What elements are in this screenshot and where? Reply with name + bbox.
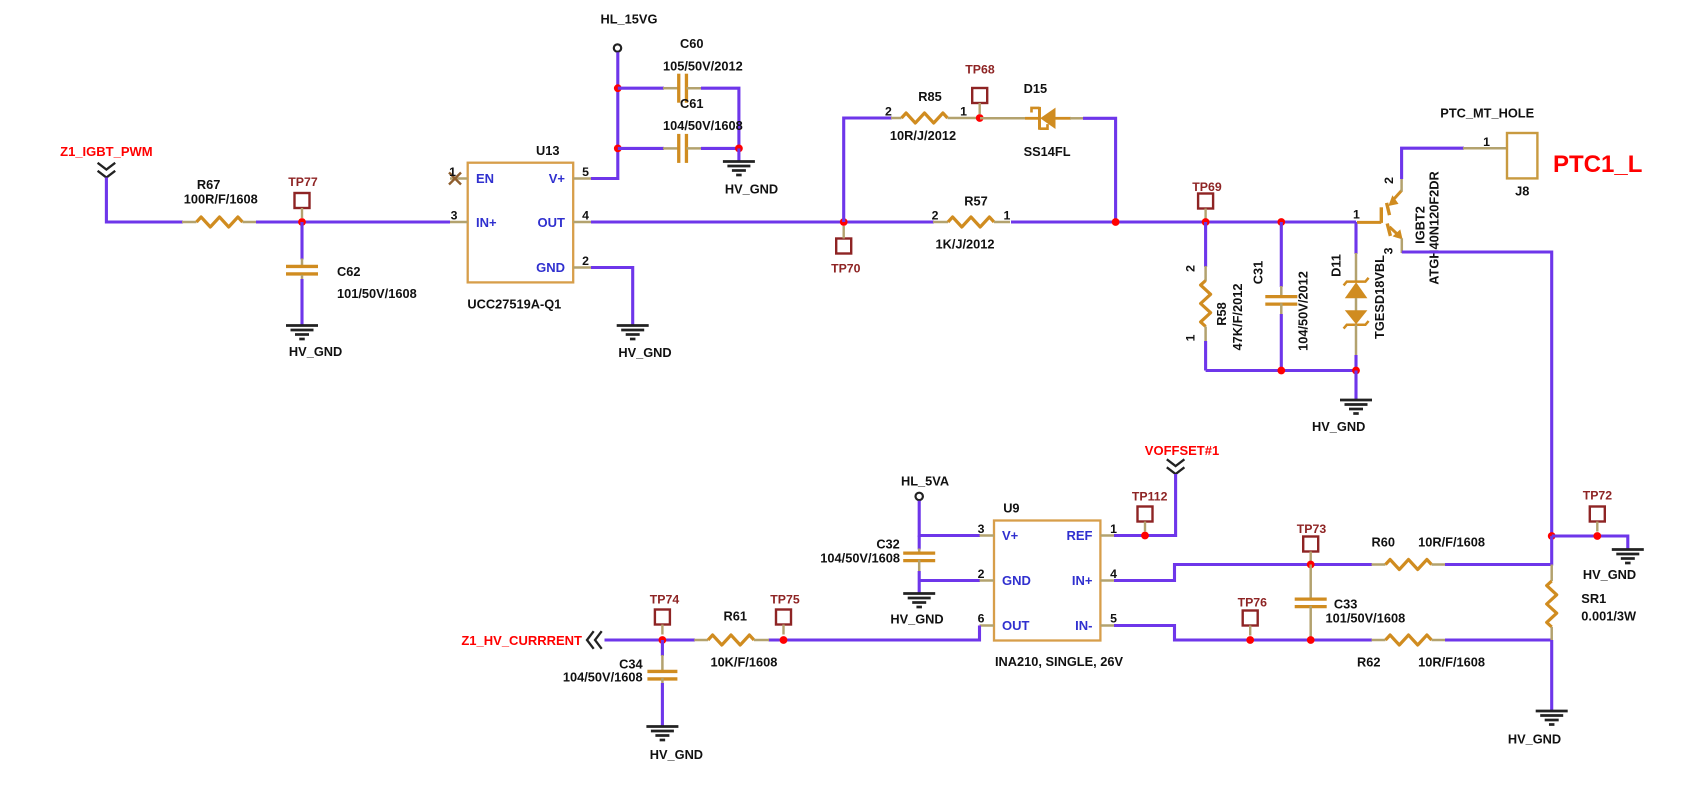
testpoint TP69 <box>1192 180 1222 219</box>
svg-text:104/50V/1608: 104/50V/1608 <box>663 118 743 133</box>
node shunt top junction <box>1548 532 1556 540</box>
svg-text:C61: C61 <box>680 96 703 111</box>
node C31 top junction <box>1277 218 1285 226</box>
svg-text:R67: R67 <box>197 177 220 192</box>
svg-text:HV_GND: HV_GND <box>618 345 671 360</box>
wire IN+ rail <box>1114 565 1372 581</box>
pin 3 V+ <box>978 522 1019 543</box>
svg-text:6: 6 <box>978 612 985 626</box>
svg-text:TP68: TP68 <box>965 63 995 77</box>
diode D15 SS14FL <box>980 81 1084 159</box>
capacitor C32 <box>820 536 980 595</box>
svg-text:2: 2 <box>978 567 985 581</box>
svg-text:HV_GND: HV_GND <box>1583 567 1636 582</box>
svg-text:3: 3 <box>451 209 458 223</box>
wire R62 to shunt bottom <box>1445 638 1552 641</box>
svg-text:104/50V/2012: 104/50V/2012 <box>1296 271 1311 351</box>
resistor SR1 shunt <box>1547 536 1637 641</box>
svg-text:TP74: TP74 <box>650 593 680 607</box>
svg-text:C60: C60 <box>680 36 703 51</box>
ground HV_GND under SR1 <box>1536 711 1568 725</box>
node C31 bottom junction <box>1277 367 1285 375</box>
svg-text:VOFFSET#1: VOFFSET#1 <box>1145 443 1219 458</box>
ground HV_GND under C62 <box>286 326 342 360</box>
resistor R85 <box>885 89 980 143</box>
capacitor C34 <box>563 640 678 727</box>
node D11 bottom junction <box>1352 367 1360 375</box>
svg-text:EN: EN <box>476 171 494 186</box>
svg-text:3: 3 <box>978 522 985 536</box>
svg-text:UCC27519A-Q1: UCC27519A-Q1 <box>467 297 561 312</box>
svg-text:0.001/3W: 0.001/3W <box>1581 609 1637 624</box>
svg-text:R61: R61 <box>724 609 747 624</box>
svg-text:4: 4 <box>582 209 589 223</box>
svg-text:1: 1 <box>960 105 967 119</box>
testpoint TP77 <box>288 175 318 218</box>
pin 1 EN no-connect <box>449 165 494 186</box>
svg-text:GND: GND <box>1002 573 1031 588</box>
svg-text:HV_GND: HV_GND <box>1508 732 1561 747</box>
svg-text:R85: R85 <box>918 89 941 104</box>
svg-text:HV_GND: HV_GND <box>1312 419 1365 434</box>
svg-text:HL_5VA: HL_5VA <box>901 474 949 489</box>
pin 5 V+ <box>549 165 591 186</box>
wire R60 to shunt top <box>1445 563 1552 566</box>
ground HV_GND under D11 <box>1312 371 1372 435</box>
ground HV_GND under C34 <box>646 727 703 763</box>
resistor R62 <box>1357 635 1485 670</box>
resistor R58 <box>1184 222 1245 371</box>
svg-text:TGESD18VBL: TGESD18VBL <box>1372 255 1387 339</box>
capacitor C33 <box>1295 565 1406 641</box>
svg-text:3: 3 <box>1381 247 1395 254</box>
svg-text:R58: R58 <box>1214 302 1229 325</box>
node TP73 junction <box>1307 561 1315 569</box>
ground HV_GND under C61 <box>723 148 778 196</box>
capacitor C62 <box>286 222 417 326</box>
svg-text:J8: J8 <box>1515 184 1529 199</box>
svg-text:1: 1 <box>1184 334 1198 341</box>
svg-text:TP112: TP112 <box>1132 490 1168 504</box>
svg-text:1: 1 <box>1353 208 1360 222</box>
svg-text:1: 1 <box>1483 135 1490 149</box>
node TP75 junction <box>780 636 788 644</box>
node TP76 junction <box>1246 636 1254 644</box>
wire R67 to U13 IN+ <box>256 220 450 223</box>
net label Z1_HV_CURRRENT <box>461 631 601 649</box>
svg-text:IN-: IN- <box>1075 618 1092 633</box>
svg-text:U13: U13 <box>536 143 559 158</box>
node D15 return junction <box>1112 218 1120 226</box>
svg-text:2: 2 <box>932 209 939 223</box>
svg-text:104/50V/1608: 104/50V/1608 <box>820 551 900 566</box>
svg-text:R57: R57 <box>964 194 987 209</box>
node C61 right junction <box>735 145 743 153</box>
power port HL_5VA <box>901 474 949 501</box>
svg-text:10K/F/1608: 10K/F/1608 <box>710 655 777 670</box>
svg-text:OUT: OUT <box>538 215 566 230</box>
svg-text:1: 1 <box>449 165 456 179</box>
wire U13 V+ to HL_15VG <box>591 52 618 178</box>
svg-text:HV_GND: HV_GND <box>890 612 943 627</box>
ground HV_GND at TP72 <box>1583 550 1644 583</box>
node TP68 junction <box>976 114 984 122</box>
node TP72 junction <box>1593 532 1601 540</box>
capacitor C60 <box>618 36 743 148</box>
pin 3 IN+ <box>450 209 497 231</box>
node TP112 junction <box>1141 532 1149 540</box>
svg-text:Z1_IGBT_PWM: Z1_IGBT_PWM <box>60 144 152 159</box>
resistor R57 <box>932 194 1011 252</box>
node C61 left junction <box>614 145 622 153</box>
connector J8 PTC_MT_HOLE <box>1440 106 1537 199</box>
testpoint TP73 <box>1297 522 1327 562</box>
pin 4 IN+ <box>1072 567 1117 588</box>
node TP74 junction <box>659 636 667 644</box>
testpoint TP74 <box>650 593 680 635</box>
wire TP72 rail <box>1552 536 1628 550</box>
node C33 bottom junction <box>1307 636 1315 644</box>
wire R58 C31 D11 bottom rail <box>1206 369 1356 372</box>
svg-text:V+: V+ <box>549 171 566 186</box>
svg-text:GND: GND <box>536 260 565 275</box>
testpoint TP112 <box>1132 490 1168 532</box>
net label VOFFSET#1 <box>1145 443 1219 474</box>
svg-text:TP77: TP77 <box>288 175 318 189</box>
svg-text:SS14FL: SS14FL <box>1024 144 1071 159</box>
svg-text:TP72: TP72 <box>1583 489 1613 503</box>
svg-text:SR1: SR1 <box>1581 591 1606 606</box>
op-amp U13 gate driver <box>467 143 573 312</box>
testpoint TP76 <box>1238 596 1268 636</box>
testpoint TP70 <box>831 226 861 276</box>
net label PTC1_L <box>1553 151 1642 178</box>
svg-text:C33: C33 <box>1334 597 1357 612</box>
pin 6 OUT <box>978 612 1030 634</box>
wire R57 to IGBT gate rail <box>1011 220 1356 223</box>
node TP77 junction <box>298 218 306 226</box>
wire IGBT emitter to shunt <box>1402 252 1552 536</box>
node C60 junction <box>614 84 622 92</box>
ground HV_GND under U13 <box>617 326 672 361</box>
svg-text:V+: V+ <box>1002 528 1019 543</box>
wire SR1 to ground <box>1550 640 1553 712</box>
svg-text:C31: C31 <box>1251 261 1266 284</box>
wire U9 OUT rail <box>605 626 980 641</box>
svg-text:5: 5 <box>1110 612 1117 626</box>
svg-text:101/50V/1608: 101/50V/1608 <box>1326 611 1406 626</box>
svg-text:10R/F/1608: 10R/F/1608 <box>1418 535 1485 550</box>
testpoint TP72 <box>1583 489 1613 532</box>
svg-text:1: 1 <box>1003 209 1010 223</box>
svg-text:HV_GND: HV_GND <box>725 182 778 197</box>
svg-text:D11: D11 <box>1329 254 1344 277</box>
wire Z1_IGBT_PWM to R67 <box>106 178 183 223</box>
svg-text:4: 4 <box>1110 567 1117 581</box>
svg-text:100R/F/1608: 100R/F/1608 <box>184 192 258 207</box>
svg-text:Z1_HV_CURRRENT: Z1_HV_CURRRENT <box>461 633 582 648</box>
svg-text:HV_GND: HV_GND <box>650 747 703 762</box>
pin 4 OUT <box>538 209 591 231</box>
resistor R61 <box>694 609 777 670</box>
svg-text:R62: R62 <box>1357 655 1380 670</box>
svg-text:D15: D15 <box>1024 81 1047 96</box>
power port HL_15VG <box>601 12 658 52</box>
wire R85 branch up <box>844 118 892 222</box>
svg-text:105/50V/2012: 105/50V/2012 <box>663 59 743 74</box>
svg-text:5: 5 <box>582 165 589 179</box>
svg-text:HL_15VG: HL_15VG <box>601 12 658 27</box>
svg-text:TP75: TP75 <box>770 593 800 607</box>
wire REF to VOFFSET#1 <box>1114 474 1176 536</box>
svg-text:TP73: TP73 <box>1297 522 1327 536</box>
testpoint TP75 <box>770 593 800 635</box>
svg-text:1K/J/2012: 1K/J/2012 <box>935 237 994 252</box>
svg-text:IGBT2: IGBT2 <box>1413 206 1428 244</box>
svg-text:C32: C32 <box>876 537 899 552</box>
svg-text:U9: U9 <box>1003 501 1019 516</box>
svg-text:2: 2 <box>1382 177 1396 184</box>
pin 2 GND <box>978 567 1031 588</box>
svg-text:ATGH40N120F2DR: ATGH40N120F2DR <box>1427 171 1442 285</box>
svg-text:101/50V/1608: 101/50V/1608 <box>337 286 417 301</box>
svg-text:47K/F/2012: 47K/F/2012 <box>1230 284 1245 351</box>
svg-text:1: 1 <box>1110 522 1117 536</box>
ground HV_GND under C32 <box>890 594 943 627</box>
testpoint TP68 <box>965 63 995 115</box>
svg-text:IN+: IN+ <box>476 215 497 230</box>
svg-text:REF: REF <box>1067 528 1093 543</box>
svg-text:TP70: TP70 <box>831 262 861 276</box>
svg-text:IN+: IN+ <box>1072 573 1093 588</box>
svg-text:TP69: TP69 <box>1192 180 1222 194</box>
node R85 branch junction <box>840 218 848 226</box>
svg-text:10R/F/1608: 10R/F/1608 <box>1418 655 1485 670</box>
svg-text:HV_GND: HV_GND <box>289 344 342 359</box>
svg-text:OUT: OUT <box>1002 618 1030 633</box>
wire HL_5VA to U9 V+ <box>919 501 980 536</box>
wire IGBT collector to J8 <box>1402 148 1507 179</box>
capacitor C31 <box>1251 222 1311 371</box>
wire IN- rail <box>1114 626 1372 641</box>
pin 2 GND <box>536 254 591 275</box>
svg-text:2: 2 <box>885 105 892 119</box>
svg-text:INA210, SINGLE, 26V: INA210, SINGLE, 26V <box>995 654 1123 669</box>
net label Z1_IGBT_PWM <box>60 144 152 178</box>
svg-text:TP76: TP76 <box>1238 596 1268 610</box>
pin 1 REF <box>1067 522 1118 543</box>
svg-text:10R/J/2012: 10R/J/2012 <box>890 128 956 143</box>
transistor IGBT2 ATGH40N120F2DR <box>1353 171 1442 285</box>
node TP69 junction <box>1202 218 1210 226</box>
svg-text:2: 2 <box>582 254 589 268</box>
op-amp U9 current sense <box>994 501 1123 670</box>
svg-text:PTC1_L: PTC1_L <box>1553 151 1642 178</box>
capacitor C61 <box>618 96 743 163</box>
wire D15 to main rail <box>1083 118 1116 222</box>
svg-text:C62: C62 <box>337 264 360 279</box>
svg-text:R60: R60 <box>1372 535 1395 550</box>
diode D11 TVS TGESD18VBL <box>1329 222 1388 371</box>
resistor R67 <box>182 177 258 227</box>
svg-text:PTC_MT_HOLE: PTC_MT_HOLE <box>1440 106 1534 121</box>
resistor R60 <box>1372 535 1486 570</box>
svg-text:2: 2 <box>1184 265 1198 272</box>
wire U13 GND pin to ground <box>591 268 633 327</box>
pin 5 IN- <box>1075 612 1117 634</box>
svg-text:104/50V/1608: 104/50V/1608 <box>563 670 643 685</box>
wire U13 OUT main rail <box>591 220 934 223</box>
